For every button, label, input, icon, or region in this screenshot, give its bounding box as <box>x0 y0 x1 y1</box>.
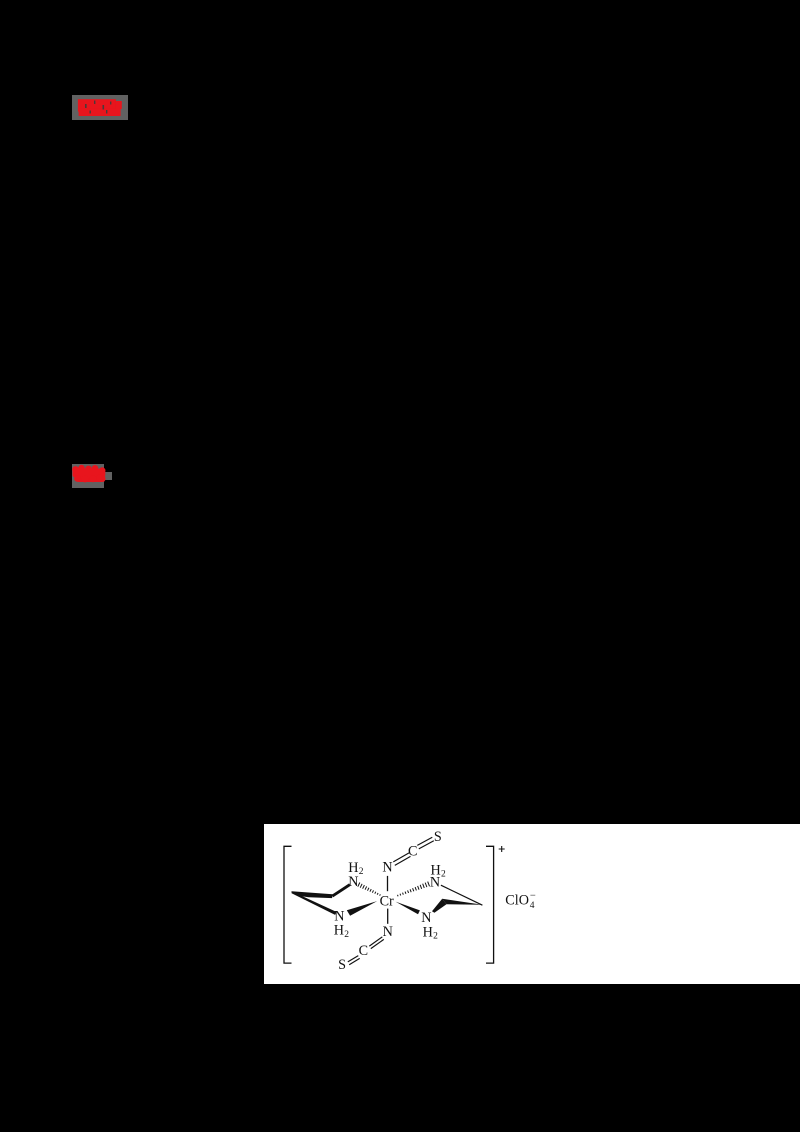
wedge apex-N(bottom-left) (left backbone) <box>291 891 336 915</box>
wedge apex-CH2 (right backbone) <box>442 898 482 904</box>
hashed wedge bond N(top-left)-Cr <box>358 882 381 895</box>
bond Cr-N(top axial) <box>386 875 388 890</box>
solid wedge bond Cr-N(bottom-right) <box>395 901 419 914</box>
bond Cr-N(bottom axial) <box>386 908 388 923</box>
solid wedge bond N(bottom-left)-Cr <box>347 901 377 916</box>
svg-text:2: 2 <box>344 929 349 939</box>
svg-text:Cr: Cr <box>379 893 393 909</box>
svg-text:2: 2 <box>358 867 363 877</box>
bold bond CH2-N(bottom-right) (right backbone) <box>432 898 446 912</box>
double bond N=C (bottom) <box>369 936 383 948</box>
wedge CH2-CH2 apex (left backbone) <box>291 891 332 898</box>
left en ligand: H2 (top-left) <box>348 860 363 877</box>
svg-text:2: 2 <box>441 869 446 879</box>
charge + superscript <box>498 846 504 852</box>
svg-text:−: − <box>530 890 536 901</box>
left en ligand: H2 (bottom-left) <box>334 922 349 939</box>
svg-text:H: H <box>348 860 358 876</box>
counter-ion ClO4- label <box>505 890 536 910</box>
double bond N=C (top) <box>393 852 410 864</box>
hashed wedge bond Cr-N(top-right) <box>397 881 429 896</box>
svg-text:ClO: ClO <box>505 892 529 908</box>
white figure box with chemical structure <box>264 824 800 984</box>
stamp 2 red text blob <box>68 461 112 487</box>
svg-text:H: H <box>430 862 440 878</box>
svg-text:N: N <box>348 874 358 890</box>
svg-text:N: N <box>382 859 392 875</box>
right en ligand: H2 (bottom-right) <box>422 924 437 941</box>
double bond C=S (top) <box>417 837 433 849</box>
bold bond N(top-left)-CH2 (left backbone) <box>331 883 350 897</box>
svg-text:H: H <box>334 922 344 938</box>
svg-text:4: 4 <box>530 901 535 911</box>
left bracket <box>284 846 291 963</box>
svg-text:S: S <box>338 957 346 973</box>
stamp 2 small gray box <box>104 472 112 480</box>
right en ligand: H2 (top-right) <box>430 862 445 879</box>
svg-text:H: H <box>422 924 432 940</box>
stamp 2 (red scribble on gray box, mid-left) <box>72 464 104 488</box>
svg-text:N: N <box>382 923 392 939</box>
double bond C=S (bottom) <box>348 955 360 964</box>
right bracket <box>486 846 494 963</box>
svg-text:S: S <box>434 829 442 845</box>
plain bond N(top-right)-CH2 apex (right backbone) <box>441 885 482 905</box>
svg-text:C: C <box>358 942 367 958</box>
stamp 1 (red text on gray box, top-left) <box>72 95 128 120</box>
svg-text:2: 2 <box>433 931 438 941</box>
